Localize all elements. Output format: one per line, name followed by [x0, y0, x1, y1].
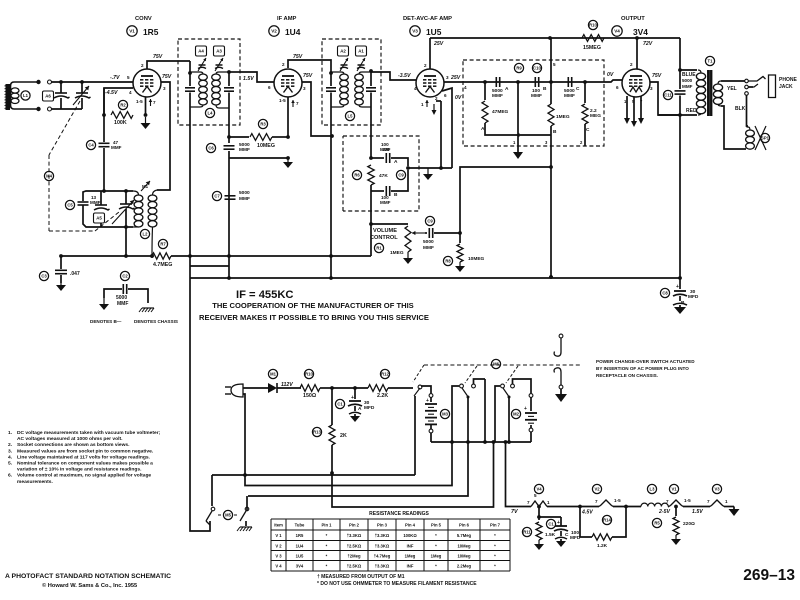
- B- arrow below V1: [141, 113, 151, 129]
- wire B+ rail: [190, 275, 682, 280]
- svg-text:5: 5: [553, 62, 556, 67]
- wire B- bus4 from R13 line: [332, 440, 495, 507]
- B- arrow below C8: [673, 303, 687, 314]
- tube V2 1U4 IF amp: [269, 16, 302, 97]
- svg-text:R3: R3: [260, 122, 266, 127]
- svg-text:-4.5V: -4.5V: [105, 90, 118, 96]
- svg-text:CONTROL: CONTROL: [370, 235, 398, 241]
- footer copyright: [42, 582, 137, 589]
- svg-text:Tube: Tube: [295, 522, 305, 527]
- wire oscillator tank top rail: [83, 189, 133, 196]
- wire M3 to bottom rail: [430, 433, 432, 442]
- svg-text:† MEASURED FROM OUTPUT OF M1: † MEASURED FROM OUTPUT OF M1: [317, 574, 405, 580]
- svg-text:C8: C8: [662, 291, 668, 296]
- wire osc left leg lower: [83, 206, 133, 228]
- svg-text:7: 7: [527, 500, 530, 505]
- switch pole 1: [414, 385, 422, 396]
- svg-text:M2: M2: [513, 412, 519, 417]
- svg-text:BY INSERTION OF AC POWER PLUG: BY INSERTION OF AC POWER PLUG INTO: [596, 366, 689, 371]
- wire V4 pin7 arrow: [638, 96, 644, 124]
- B- arrow bypass: [423, 168, 433, 180]
- svg-text:C6: C6: [208, 146, 214, 151]
- wire tuning bottom rail: [52, 108, 83, 110]
- svg-text:150Ω: 150Ω: [303, 393, 317, 399]
- wire secondary bottom to speaker: [721, 106, 746, 149]
- svg-text:4.7MEG: 4.7MEG: [153, 262, 172, 268]
- notes text block: [8, 430, 161, 485]
- wire V4 pin2 72V: [630, 38, 653, 69]
- svg-text:4: 4: [464, 85, 467, 90]
- svg-text:5.7Meg: 5.7Meg: [457, 533, 472, 538]
- svg-text:3V4: 3V4: [296, 564, 304, 569]
- wire plug neutral down: [243, 394, 247, 477]
- resistor R9C 2.2MEG: [582, 82, 601, 133]
- svg-text:0V: 0V: [607, 72, 614, 78]
- resistor R9A 47MEG: [481, 82, 509, 132]
- svg-text:L5: L5: [348, 114, 354, 119]
- svg-text:75V: 75V: [293, 54, 303, 60]
- wire detector out to V4 grid 0V: [604, 72, 622, 90]
- wire C9 to B- and V3 pin2: [406, 166, 452, 170]
- svg-text:CONV: CONV: [135, 16, 152, 22]
- svg-text:M5: M5: [225, 513, 231, 518]
- svg-text:V1: V1: [671, 487, 677, 492]
- svg-text:V4: V4: [536, 487, 542, 492]
- svg-text:3V4: 3V4: [633, 27, 648, 37]
- text cooperation line2: [199, 313, 429, 322]
- svg-text:6: 6: [616, 85, 619, 90]
- svg-text:5: 5: [534, 493, 537, 498]
- svg-text:100K: 100K: [114, 120, 127, 126]
- svg-text:B: B: [394, 192, 398, 198]
- svg-text:B: B: [543, 86, 547, 92]
- wire M5 pole B: [246, 496, 248, 511]
- svg-text:3: 3: [303, 86, 306, 91]
- wire bus1: [212, 474, 415, 476]
- IF2 primary coil L5a: [331, 72, 348, 107]
- svg-text:3: 3: [163, 86, 166, 91]
- svg-text:220Ω: 220Ω: [683, 521, 695, 527]
- svg-text:1R5: 1R5: [143, 27, 159, 37]
- svg-text:A: A: [394, 159, 398, 165]
- wire pole2 blade down: [467, 397, 469, 442]
- svg-text:Pin 4: Pin 4: [405, 522, 416, 527]
- switch M5: [206, 475, 249, 521]
- speaker SP1 voice coil: [746, 127, 755, 152]
- svg-text:10Meg: 10Meg: [457, 543, 470, 548]
- svg-text:75V: 75V: [153, 54, 163, 60]
- wire oscillator tank left leg: [82, 196, 84, 201]
- svg-text:C: C: [586, 127, 590, 133]
- svg-text:Socket connections are shown a: Socket connections are shown as bottom v…: [17, 442, 130, 448]
- svg-text:V4: V4: [614, 29, 620, 34]
- svg-text:R9: R9: [516, 66, 522, 71]
- wire V4 pin3 75V to output transformer: [650, 73, 680, 115]
- capacitor C8 30MFD electrolytic: [660, 278, 699, 306]
- svg-text:7: 7: [666, 499, 669, 504]
- svg-text:V3: V3: [412, 29, 418, 34]
- wire pole3 companion: [511, 379, 531, 393]
- svg-text:C9: C9: [427, 219, 433, 224]
- resistor R10b 150 ohm: [300, 369, 332, 399]
- pin 1 arrow V3: [421, 100, 429, 107]
- svg-text:0V: 0V: [455, 95, 462, 101]
- svg-text:JACK: JACK: [779, 84, 793, 90]
- wire filament feed 7V: [511, 509, 518, 515]
- label L1: [21, 91, 30, 100]
- svg-text:MMF: MMF: [239, 196, 250, 202]
- svg-text:AC voltages measured at 1000 o: AC voltages measured at 1000 ohms per vo…: [17, 436, 123, 442]
- svg-text:7: 7: [296, 101, 299, 106]
- svg-text:2: 2: [424, 63, 427, 68]
- svg-text:MMF: MMF: [423, 245, 434, 251]
- svg-text:7: 7: [707, 499, 710, 504]
- svg-text:POWER CHANGE-OVER SWITCH ACTUA: POWER CHANGE-OVER SWITCH ACTUATED: [596, 359, 695, 364]
- capacitor C4 47MMF: [86, 115, 121, 191]
- svg-text:R1: R1: [376, 246, 382, 251]
- wire M2 to rail: [530, 432, 532, 442]
- svg-text:1: 1: [547, 500, 550, 505]
- B- arrow below C1A: [349, 412, 361, 422]
- svg-text:10MEG: 10MEG: [257, 143, 275, 149]
- svg-text:MFD: MFD: [688, 294, 699, 300]
- svg-text:A3: A3: [216, 49, 222, 54]
- wire to R12: [330, 386, 368, 390]
- svg-text:1.5V: 1.5V: [692, 509, 703, 515]
- IF transformer 1 shield dashed box: [178, 39, 240, 125]
- svg-text:Item: Item: [274, 522, 283, 527]
- resistor R7 4.7MEG: [152, 239, 172, 268]
- svg-text:1: 1: [725, 499, 728, 504]
- svg-text:75V: 75V: [652, 73, 662, 79]
- svg-text:M6: M6: [493, 362, 499, 367]
- svg-text:© Howard W. Sams & Co., Inc: © Howard W. Sams & Co., Inc. 1955: [42, 582, 137, 589]
- wire M5 pole A down: [206, 521, 210, 525]
- svg-text:†3.3KΩ: †3.3KΩ: [375, 533, 390, 538]
- svg-text:15MEG: 15MEG: [583, 45, 601, 51]
- wire pin7 V2 return bridge: [229, 157, 288, 159]
- resistor R8 10MEG: [443, 231, 484, 266]
- svg-text:1-5: 1-5: [684, 498, 691, 503]
- capacitor C3 .047: [39, 256, 80, 283]
- terminal dots antenna: [36, 80, 40, 111]
- svg-text:M1: M1: [270, 372, 276, 377]
- svg-text:5.: 5.: [8, 461, 13, 467]
- svg-text:V3: V3: [714, 487, 720, 492]
- svg-text:Pin 3: Pin 3: [377, 522, 388, 527]
- wire L2 right coil bottom to AVC rail: [150, 227, 154, 258]
- jack J lower contact: [554, 368, 563, 389]
- label M4: [44, 171, 53, 180]
- wire grid line left: [50, 81, 52, 83]
- svg-text:A: A: [505, 86, 509, 92]
- wire pole2b down: [484, 379, 486, 442]
- svg-text:75V: 75V: [303, 73, 313, 79]
- svg-text:RECEPTACLE ON CHASSIS.: RECEPTACLE ON CHASSIS.: [596, 373, 658, 378]
- capacitor C2 5000MMF: [104, 271, 148, 307]
- AC plug: [225, 384, 243, 397]
- svg-text:L4: L4: [208, 111, 214, 116]
- wire R13 down to bus1: [330, 445, 334, 475]
- trimmer A5: [94, 191, 110, 227]
- svg-text:4: 4: [414, 86, 417, 91]
- svg-text:MMF: MMF: [117, 301, 128, 307]
- wire B+ down from RED: [679, 115, 681, 278]
- svg-text:Pin 1: Pin 1: [321, 522, 332, 527]
- tube V3 1U5 det-avc-af amp: [403, 16, 452, 97]
- svg-text:1Meg: 1Meg: [405, 553, 416, 558]
- B- arrow det pin1: [513, 146, 523, 159]
- wire BLUE lead: [678, 68, 697, 78]
- svg-text:MEG: MEG: [590, 113, 601, 119]
- svg-text:2: 2: [141, 63, 144, 68]
- wire AVC line from bus: [551, 38, 556, 104]
- label 5000 MMF C11: [0, 0, 1, 1]
- svg-text:V 4: V 4: [275, 564, 282, 569]
- svg-text:R8: R8: [445, 259, 451, 264]
- svg-text:1U5: 1U5: [296, 553, 304, 558]
- tube V1 1R5 converter: [127, 16, 161, 97]
- wire 72V bus corner down: [679, 38, 681, 70]
- label SP1: [760, 133, 769, 142]
- svg-text:R7: R7: [160, 242, 166, 247]
- text cooperation line1: [212, 301, 414, 310]
- switch pole 2 blade: [462, 388, 470, 399]
- wire det pin1 down: [517, 82, 519, 146]
- svg-text:A: A: [358, 406, 362, 412]
- trimmer A2 capacitor: [340, 58, 348, 71]
- svg-text:C2: C2: [122, 274, 128, 279]
- svg-text:10Meg: 10Meg: [457, 553, 470, 558]
- wire battery bottom rail: [431, 440, 531, 444]
- svg-text:MMF: MMF: [239, 147, 250, 153]
- svg-text:1U4: 1U4: [285, 27, 301, 37]
- svg-text:6: 6: [268, 85, 271, 90]
- gang dash to pole3: [506, 366, 518, 383]
- svg-text:OUTPUT: OUTPUT: [621, 16, 645, 22]
- svg-text:A1: A1: [358, 49, 364, 54]
- speaker SP1 cone: [755, 126, 766, 150]
- B- arrow end of filament chain: [729, 507, 740, 517]
- IF transformer 2 shield dashed box: [322, 39, 381, 125]
- svg-text:-.7V: -.7V: [110, 75, 120, 81]
- svg-text:V2: V2: [594, 487, 600, 492]
- svg-text:1U5: 1U5: [426, 27, 442, 37]
- capacitor C7 5000MMF: [212, 190, 250, 202]
- svg-text:L3: L3: [650, 487, 656, 492]
- svg-text:L1: L1: [23, 93, 29, 98]
- svg-text:†2.5KΩ: †2.5KΩ: [347, 564, 362, 569]
- resistor R14 1.2K bypass loop: [578, 505, 628, 549]
- capacitor C9b 5000MMF coupling: [423, 216, 460, 251]
- svg-text:MMF: MMF: [682, 84, 693, 89]
- svg-text:INF: INF: [407, 543, 414, 548]
- svg-text:VOLUME: VOLUME: [373, 228, 397, 234]
- capacitor IF1 secondary: [224, 70, 234, 108]
- svg-text:C: C: [576, 86, 580, 92]
- wire V2 pin3 75V screen feed: [302, 73, 334, 138]
- wire RED lead: [658, 108, 697, 117]
- wire IF2 return through R6: [369, 191, 373, 226]
- svg-text:†3.3KΩ: †3.3KΩ: [375, 564, 390, 569]
- wire pole3 blade down: [507, 397, 511, 444]
- resistor R1 volume 1MEG: [371, 224, 411, 256]
- B- arrow below R8: [455, 262, 465, 272]
- svg-text:3: 3: [446, 75, 449, 80]
- trimmer A3 capacitor: [215, 58, 223, 71]
- svg-text:7: 7: [595, 499, 598, 504]
- svg-text:V1: V1: [129, 29, 135, 34]
- B- arrow below C1C: [555, 537, 567, 547]
- wire V3 pin2 return: [440, 101, 442, 168]
- svg-text:2.: 2.: [8, 442, 13, 448]
- capacitor C5 13MMF: [65, 195, 100, 210]
- svg-text:2.2K: 2.2K: [377, 393, 388, 399]
- svg-text:V2: V2: [271, 29, 277, 34]
- variable capacitor oscillator section: [112, 189, 135, 229]
- svg-text:DET-AVC-AF AMP: DET-AVC-AF AMP: [403, 16, 452, 22]
- svg-text:1-5: 1-5: [136, 99, 143, 104]
- svg-text:RED: RED: [686, 108, 697, 114]
- transformer T1 primary: [696, 70, 705, 115]
- svg-text:C10: C10: [533, 66, 541, 71]
- pin 7 arrow V2: [291, 100, 299, 107]
- wire tuning top rail: [51, 81, 53, 83]
- loop antenna L1 core: [5, 84, 12, 110]
- svg-text:1R5: 1R5: [296, 533, 304, 538]
- wire IF2 secondary return down: [370, 107, 372, 158]
- wire det pin2 down: [584, 124, 586, 146]
- svg-text:4: 4: [129, 90, 132, 95]
- svg-text:Line voltage maintained at 117: Line voltage maintained at 117 volts for…: [17, 454, 151, 460]
- chassis ground below M5 pole B: [237, 521, 252, 531]
- svg-text:DC voltage measurements taken: DC voltage measurements taken with vacuu…: [17, 430, 161, 436]
- trimmer A1 box: [356, 46, 367, 56]
- wire det pins below: [513, 140, 583, 145]
- capacitor C6 5000MMF: [206, 142, 250, 153]
- svg-text:4.5V: 4.5V: [581, 510, 593, 516]
- wire V2 filament line down: [279, 97, 288, 137]
- wire V4 pin1 arrow: [624, 96, 630, 124]
- svg-text:C5: C5: [67, 203, 73, 208]
- wire V3 pin2 to B+ bus: [424, 38, 444, 69]
- label R9: [514, 63, 523, 72]
- svg-text:†3.3KΩ: †3.3KΩ: [347, 533, 362, 538]
- resistor R13 2K: [312, 388, 347, 445]
- wire V1 pin2 to IF1 primary: [141, 54, 190, 69]
- trimmer A3 box: [214, 46, 225, 56]
- label L4: [205, 108, 214, 117]
- wire pole2 companion: [472, 379, 485, 388]
- label T1: [705, 56, 714, 65]
- svg-text:RESISTANCE READINGS: RESISTANCE READINGS: [369, 511, 429, 517]
- svg-text:C4: C4: [88, 143, 94, 148]
- wire V3 pin6 0V: [442, 88, 462, 168]
- jack J upper contact: [554, 334, 563, 356]
- trimmer A4 box: [196, 46, 207, 56]
- svg-text:+: +: [524, 406, 527, 412]
- label L2: [140, 229, 149, 238]
- wire rail2 bridge: [190, 265, 229, 267]
- wire V1 filament junction: [668, 505, 678, 509]
- text IF=455KC: [236, 289, 294, 301]
- svg-text:MMF: MMF: [492, 93, 503, 99]
- B- arrow below V2 return: [283, 156, 293, 168]
- svg-text:A PHOTOFACT STANDARD NOTATI: A PHOTOFACT STANDARD NOTATION SCHEMATIC: [5, 573, 171, 580]
- B- arrow denotes symbol: [90, 298, 122, 324]
- switch change-over dashed M6 line: [424, 364, 580, 366]
- B- arrow below R11: [534, 540, 544, 550]
- capacitor C10C 5000MMF: [564, 77, 580, 99]
- wire V1 pin3 75V to oscillator coil: [157, 74, 172, 190]
- wire IF2 secondary to V3 grid (-3.5V): [371, 72, 417, 91]
- svg-text:R10: R10: [305, 372, 313, 377]
- wire R2 junction to cathode: [103, 88, 105, 115]
- oscillator transformer L2 right coil: [148, 190, 157, 234]
- wire V2 filament to L3: [613, 506, 641, 508]
- B- arrow below jack J: [555, 389, 567, 402]
- resistor R6 47K: [352, 165, 388, 185]
- svg-text:R10: R10: [589, 23, 597, 28]
- svg-text:C3: C3: [41, 274, 47, 279]
- wire pole1 to battery M3 plus: [421, 386, 431, 393]
- svg-text:M4: M4: [46, 174, 52, 179]
- wire IF1 secondary to V2 grid (1.5V): [240, 72, 274, 90]
- svg-text:YEL: YEL: [727, 86, 737, 92]
- svg-text:INF: INF: [407, 564, 414, 569]
- battery M3 B-battery: [425, 394, 450, 433]
- svg-text:V 1: V 1: [275, 533, 282, 538]
- wire IF1 secondary return down: [228, 108, 230, 143]
- svg-text:112V: 112V: [281, 382, 293, 388]
- label R1: [374, 243, 383, 252]
- svg-text:2: 2: [435, 96, 438, 101]
- svg-text:A6: A6: [45, 94, 51, 99]
- svg-text:MFD: MFD: [364, 405, 375, 411]
- svg-text:7V: 7V: [511, 509, 518, 515]
- wire det pin3 down: [549, 126, 553, 279]
- label L5: [345, 111, 354, 120]
- svg-text:MMF: MMF: [531, 93, 542, 99]
- IF1 primary coil L4a: [190, 72, 207, 107]
- gang dash to pole1: [413, 365, 424, 382]
- IF1 secondary coil L4b: [212, 72, 229, 108]
- oscillator transformer L2 left coil: [133, 191, 143, 227]
- svg-text:1-5: 1-5: [279, 98, 286, 103]
- tube V4 filament: [527, 484, 550, 508]
- wire V3 filament out: [724, 506, 734, 508]
- IF2 secondary coil L5b: [355, 72, 371, 107]
- wire V1 to V3 filament 1.5V: [683, 507, 710, 516]
- svg-text:MMF: MMF: [111, 145, 122, 150]
- svg-text:25V: 25V: [450, 75, 461, 81]
- slug tuning arrow M1 on L2: [141, 181, 150, 191]
- label M6: [491, 359, 500, 368]
- B- arrow below R5: [671, 535, 681, 545]
- inductor L3: [641, 484, 668, 506]
- tube V4 3V4 output: [612, 16, 650, 97]
- svg-text:1U4: 1U4: [296, 543, 304, 548]
- wire V4 pin5 arrow: [631, 97, 637, 127]
- svg-text:PHONE: PHONE: [779, 77, 797, 83]
- svg-text:Measured values are from socke: Measured values are from socket pin to c…: [17, 448, 154, 454]
- svg-text:SP1: SP1: [761, 136, 770, 141]
- svg-text:A4: A4: [198, 49, 204, 54]
- resistor R11 1.5K: [522, 506, 555, 540]
- wire C6 junction: [228, 151, 230, 256]
- svg-text:DENOTES CHASSIS: DENOTES CHASSIS: [134, 319, 178, 324]
- capacitor IF2 primary: [326, 71, 336, 107]
